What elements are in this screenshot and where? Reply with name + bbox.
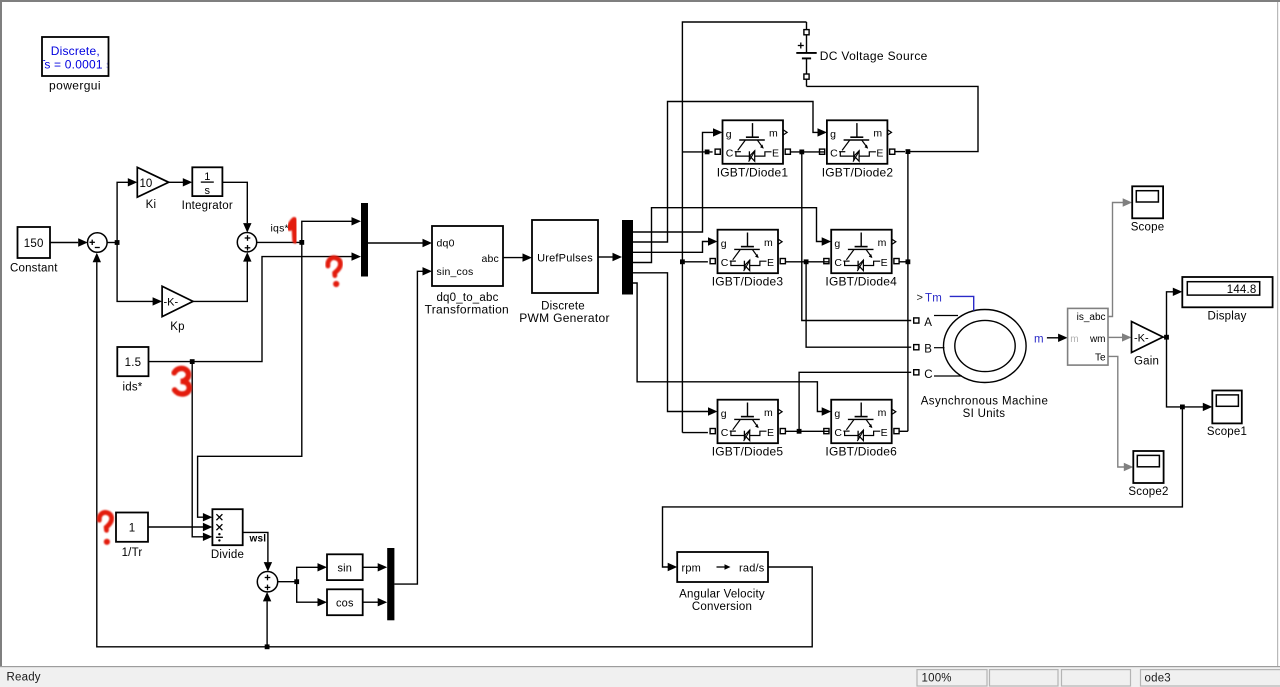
svg-text:sin: sin xyxy=(337,562,352,574)
IGBT/Diode5 block xyxy=(710,400,785,444)
svg-text:C: C xyxy=(830,148,838,160)
wire iqs* to mux1 input 1 xyxy=(302,217,361,242)
svg-text:ode3: ode3 xyxy=(1145,673,1171,685)
svg-text:E: E xyxy=(881,257,888,269)
scope1 label xyxy=(1207,426,1247,438)
svg-text:1.5: 1.5 xyxy=(125,357,142,369)
machine label xyxy=(921,396,1049,421)
svg-text:C: C xyxy=(924,369,932,381)
svg-text:144.8: 144.8 xyxy=(1227,284,1257,296)
integrator label xyxy=(182,200,233,212)
scope block xyxy=(1132,186,1163,218)
svg-text:Ready: Ready xyxy=(7,672,41,684)
svg-text:m: m xyxy=(1034,334,1044,346)
svg-text:g: g xyxy=(721,408,727,420)
wire to scope1 xyxy=(1167,337,1213,411)
svg-text:Scope: Scope xyxy=(1131,222,1165,234)
1/Tr label xyxy=(122,547,143,559)
discrete PWM generator block xyxy=(532,220,598,293)
status bar panel 100% xyxy=(917,670,987,686)
svg-text:m: m xyxy=(878,237,887,249)
svg-text:Scope1: Scope1 xyxy=(1207,426,1247,438)
PWM generator label xyxy=(519,301,610,326)
svg-text:C: C xyxy=(834,427,842,439)
svg-text:wm: wm xyxy=(1089,334,1106,345)
wire mux1 to dq0 input xyxy=(368,239,432,247)
wire divide output to sum3 xyxy=(243,532,272,571)
svg-text:C: C xyxy=(721,257,729,269)
angular velocity conversion label xyxy=(679,589,765,614)
wire demux out4 to IGBT4 gate xyxy=(633,208,831,263)
divide label xyxy=(211,549,244,561)
wire DC- bus vertical xyxy=(890,149,910,431)
svg-text:g: g xyxy=(834,238,840,250)
IGBT/Diode6 label xyxy=(825,445,897,459)
svg-text:-K-: -K- xyxy=(164,297,179,309)
gain Ki xyxy=(137,167,168,197)
wire demux out5 to IGBT5 gate xyxy=(633,273,718,416)
svg-text:powergui: powergui xyxy=(49,79,101,93)
svg-text:IGBT/Diode4: IGBT/Diode4 xyxy=(825,275,897,289)
cos block xyxy=(327,589,363,615)
display block xyxy=(1182,277,1272,307)
svg-text:B: B xyxy=(924,344,932,356)
wire gain output junction xyxy=(1163,335,1169,340)
machine measurement selector block xyxy=(1068,308,1108,365)
wire demux out6 to IGBT6 gate xyxy=(633,283,831,416)
machine port B xyxy=(914,344,945,356)
wire PWM to demux xyxy=(598,253,622,261)
wire is_abc to scope xyxy=(1108,198,1132,316)
svg-text:IGBT/Diode3: IGBT/Diode3 xyxy=(712,275,784,289)
machine port A xyxy=(914,316,958,330)
wire demux out1 to IGBT1 gate xyxy=(633,128,723,232)
wire wm to gain xyxy=(1108,333,1132,341)
powergui block xyxy=(38,37,112,76)
constant label xyxy=(10,263,58,275)
wire DC- to IGBT6 emitter xyxy=(895,430,908,432)
IGBT/Diode3 label xyxy=(712,275,784,289)
svg-text:cos: cos xyxy=(336,597,354,609)
wire sum1 output to branch junction xyxy=(107,240,119,245)
svg-text:m: m xyxy=(873,128,882,140)
window top border xyxy=(0,0,1280,2)
wire iqs* down to divide input 1 xyxy=(198,242,302,521)
red handwritten question mark lower xyxy=(99,512,111,544)
svg-text:PWM Generator: PWM Generator xyxy=(519,311,610,325)
status bar panel empty 1 xyxy=(990,670,1059,686)
demux bar (pulses) xyxy=(622,220,633,295)
svg-text:m: m xyxy=(769,128,778,140)
wire sin to mux2 xyxy=(363,563,388,571)
angular velocity conversion block xyxy=(677,552,768,582)
wire Kp to sum2 xyxy=(193,252,252,301)
svg-text:100%: 100% xyxy=(922,673,952,685)
constant block ids* 1.5 xyxy=(117,347,148,376)
IGBT/Diode1 block xyxy=(715,120,790,164)
svg-text:rpm: rpm xyxy=(682,562,702,574)
svg-text:g: g xyxy=(830,129,836,141)
svg-text:Conversion: Conversion xyxy=(692,601,752,613)
svg-text:Asynchronous Machine: Asynchronous Machine xyxy=(921,396,1049,408)
svg-text:IGBT/Diode1: IGBT/Diode1 xyxy=(717,165,789,179)
svg-text:Kp: Kp xyxy=(170,321,184,333)
wire DC+ top rail xyxy=(682,22,806,433)
sum junction 2 (iqs*) xyxy=(237,233,256,252)
svg-text:A: A xyxy=(924,317,932,329)
svg-text:SI Units: SI Units xyxy=(963,408,1006,420)
wire DC+ tee to IGBT3 collector xyxy=(680,259,708,264)
gain label xyxy=(1134,356,1159,368)
svg-text:is_abc: is_abc xyxy=(1077,312,1106,323)
wire DC+ to IGBT5 collector xyxy=(682,432,708,434)
IGBT/Diode6 block xyxy=(824,400,899,444)
IGBT/Diode4 block xyxy=(824,230,899,274)
svg-text:C: C xyxy=(726,148,734,160)
svg-text:sin_cos: sin_cos xyxy=(437,266,474,278)
gain block xyxy=(1132,322,1164,353)
ids* label xyxy=(123,382,143,394)
sin block xyxy=(327,554,363,580)
window left border xyxy=(0,0,2,687)
svg-text:IGBT/Diode6: IGBT/Diode6 xyxy=(825,445,897,459)
wire DC- tee to IGBT4 emitter xyxy=(895,259,911,264)
wire ids* down to divide input 3 xyxy=(192,362,212,541)
constant block 1/Tr xyxy=(116,513,148,542)
svg-text:m: m xyxy=(764,237,773,249)
canvas right edge line xyxy=(1277,2,1278,666)
svg-text:C: C xyxy=(834,257,842,269)
wire phase B (IGBT3 E to IGBT4 C, to machine B) xyxy=(785,259,911,347)
svg-text:g: g xyxy=(726,129,732,141)
IGBT/Diode5 label xyxy=(712,445,784,459)
svg-text:Angular Velocity: Angular Velocity xyxy=(679,589,765,601)
sum junction 3 (we) xyxy=(257,572,277,592)
signal label iqs* xyxy=(271,223,289,235)
red handwritten mark 3 xyxy=(174,368,189,394)
wire integrator to sum2 xyxy=(222,182,251,232)
status bar text Ready xyxy=(7,672,41,684)
wire speed to angular velocity conversion xyxy=(663,407,1183,571)
dq0_to_abc block xyxy=(432,226,503,286)
IGBT/Diode2 label xyxy=(822,165,894,179)
machine m output xyxy=(1034,334,1068,346)
signal label wsl xyxy=(249,534,267,545)
scope1 block xyxy=(1212,391,1242,424)
gain Kp xyxy=(162,286,193,316)
svg-text:m: m xyxy=(1070,334,1078,345)
wire demux out2 to IGBT2 gate xyxy=(633,102,827,243)
svg-text:m: m xyxy=(878,407,887,419)
svg-text:Display: Display xyxy=(1207,311,1246,323)
mux2 bar (sin/cos) xyxy=(387,548,394,620)
wire sum3 output split xyxy=(278,563,327,606)
wire Te to scope2 xyxy=(1108,356,1133,471)
svg-text:E: E xyxy=(876,148,883,160)
status bar background xyxy=(0,666,1280,687)
svg-text:E: E xyxy=(767,257,774,269)
mux1 bar (iqs,ids) xyxy=(361,203,368,277)
scope2 label xyxy=(1128,486,1168,498)
svg-text:Gain: Gain xyxy=(1134,356,1159,368)
IGBT/Diode1 label xyxy=(717,165,789,179)
red handwritten question mark upper xyxy=(328,258,341,287)
svg-text:Te: Te xyxy=(1095,353,1106,364)
svg-text:g: g xyxy=(834,408,840,420)
svg-text:s: s xyxy=(205,185,211,197)
wire sum2 output to junction xyxy=(257,240,304,245)
svg-text:C: C xyxy=(721,427,729,439)
constant block 150 xyxy=(18,227,51,258)
wire demux out3 to IGBT3 gate xyxy=(633,237,718,252)
wire speed feedback to sum3 xyxy=(263,592,271,649)
wire Ki to integrator xyxy=(169,178,193,186)
svg-text:dq0: dq0 xyxy=(437,238,455,250)
wire cos to mux2 xyxy=(363,598,388,606)
IGBT/Diode4 label xyxy=(825,275,897,289)
wire to display xyxy=(1167,288,1183,338)
svg-text:Transformation: Transformation xyxy=(425,302,509,316)
wire avc output to bottom rail xyxy=(93,253,813,647)
Kp label xyxy=(170,321,184,333)
svg-text:10: 10 xyxy=(140,178,153,190)
svg-text:>: > xyxy=(917,292,923,304)
dq0_to_abc label xyxy=(425,292,509,316)
svg-text:Integrator: Integrator xyxy=(182,200,233,212)
Ki label xyxy=(146,199,157,211)
wire mux2 to dq0 sin_cos input xyxy=(394,267,432,584)
wire DC- from source xyxy=(807,86,979,151)
svg-text:UrefPulses: UrefPulses xyxy=(537,252,593,264)
asynchronous machine block xyxy=(944,310,1027,383)
powergui label xyxy=(49,79,101,93)
svg-text:Constant: Constant xyxy=(10,263,58,275)
svg-text:Discrete,: Discrete, xyxy=(51,44,100,58)
IGBT/Diode3 block xyxy=(710,230,785,274)
svg-text:abc: abc xyxy=(481,253,499,265)
svg-text:ids*: ids* xyxy=(123,382,143,394)
svg-text:1/Tr: 1/Tr xyxy=(122,547,143,559)
svg-text:150: 150 xyxy=(24,238,44,250)
wire ids* to mux1 input 2 xyxy=(149,252,362,364)
svg-text:g: g xyxy=(721,238,727,250)
svg-text:1: 1 xyxy=(129,522,136,534)
svg-text:m: m xyxy=(764,407,773,419)
svg-text:iqs*: iqs* xyxy=(271,223,289,235)
svg-text:E: E xyxy=(881,427,888,439)
wire phase C (IGBT5 E to IGBT6 C, to machine C) xyxy=(785,372,911,433)
svg-text:IGBT/Diode2: IGBT/Diode2 xyxy=(822,165,894,179)
svg-text:Divide: Divide xyxy=(211,549,244,561)
svg-text:rad/s: rad/s xyxy=(739,562,765,574)
DC voltage source xyxy=(796,22,816,86)
svg-text:wsl: wsl xyxy=(249,534,267,545)
scope label xyxy=(1131,222,1165,234)
IGBT/Diode2 block xyxy=(820,120,895,164)
wire dq0 to PWM generator xyxy=(503,253,532,261)
svg-text:E: E xyxy=(767,427,774,439)
svg-text:1: 1 xyxy=(204,171,210,183)
svg-text:Ts = 0.0001 s: Ts = 0.0001 s xyxy=(38,58,112,72)
svg-text:E: E xyxy=(772,148,779,160)
wire branch to Kp xyxy=(117,243,162,306)
sum junction 1 (speed error) xyxy=(88,233,108,253)
wire constant to sum1 xyxy=(50,238,87,246)
svg-text:-K-: -K- xyxy=(1134,332,1149,344)
wire 1/Tr to divide input 2 xyxy=(148,523,212,531)
svg-text:Tm: Tm xyxy=(925,293,942,305)
status bar panel ode3 xyxy=(1141,670,1280,686)
scope2 block xyxy=(1133,451,1163,483)
svg-text:IGBT/Diode5: IGBT/Diode5 xyxy=(712,445,784,459)
svg-text:DC Voltage Source: DC Voltage Source xyxy=(820,49,928,63)
status bar panel empty 2 xyxy=(1062,670,1131,686)
DC voltage source label xyxy=(820,49,928,63)
wire branch to Ki xyxy=(117,178,137,242)
svg-text:Scope2: Scope2 xyxy=(1128,486,1168,498)
display label xyxy=(1207,311,1246,323)
integrator block 1/s xyxy=(192,167,222,197)
wire DC+ tee to IGBT1 collector xyxy=(682,150,712,155)
wire phase A (IGBT1 E to IGBT2 C, to machine A) xyxy=(790,150,911,321)
svg-text:Ki: Ki xyxy=(146,199,157,211)
divide block xyxy=(212,509,242,545)
machine port C xyxy=(914,369,962,381)
machine Tm port xyxy=(917,292,974,311)
red handwritten mark 1 xyxy=(290,220,296,241)
